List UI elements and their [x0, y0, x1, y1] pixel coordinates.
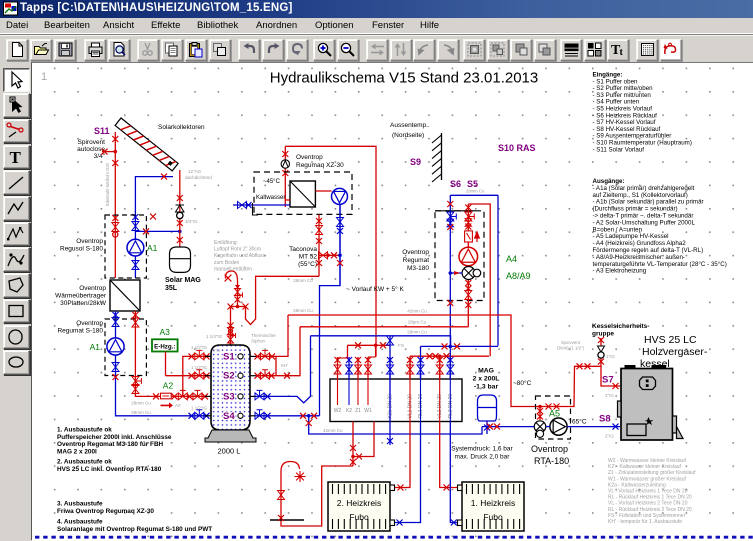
svg-text:Taconova: Taconova	[289, 246, 317, 253]
svg-text:MAG 2 x 200l: MAG 2 x 200l	[57, 448, 97, 455]
svg-text:1. Heizkreis: 1. Heizkreis	[471, 498, 515, 508]
svg-text:S7: S7	[602, 375, 614, 386]
svg-text:S6: S6	[450, 179, 461, 189]
svg-text:S9: S9	[410, 157, 421, 167]
svg-text:28mm Cu: 28mm Cu	[131, 401, 151, 406]
svg-text:Holzvergaser-: Holzvergaser-	[642, 346, 708, 358]
svg-text:A5: A5	[549, 409, 560, 419]
svg-text:1 1/2"IG: 1 1/2"IG	[191, 365, 208, 370]
svg-text:Oventrop: Oventrop	[402, 249, 429, 256]
svg-text:Z1: Z1	[355, 408, 361, 414]
svg-text:Systemdruck: 1,6 bar: Systemdruck: 1,6 bar	[451, 446, 513, 453]
svg-text:manuell entlüften: manuell entlüften	[214, 266, 252, 272]
svg-text:(Nordseite): (Nordseite)	[392, 132, 424, 139]
svg-text:2000 L: 2000 L	[218, 447, 241, 456]
svg-text:Oventrop: Oventrop	[79, 285, 106, 292]
svg-text:Kesselsicherheits-: Kesselsicherheits-	[592, 323, 649, 330]
svg-text:HVS 25 LC inkl. Oventrop RT: HVS 25 LC inkl. Oventrop RTA-180	[57, 466, 162, 473]
svg-text:30Platten/28kW: 30Platten/28kW	[60, 300, 107, 307]
svg-text:FS - Füllstation und Systemtre: FS - Füllstation und Systemtrenner	[608, 513, 686, 519]
svg-text:FS: FS	[398, 343, 404, 349]
svg-text:A1: A1	[90, 342, 101, 352]
svg-text:2. Heizkreis: 2. Heizkreis	[337, 498, 381, 508]
svg-text:Edelstahl-Wellrohr D20: Edelstahl-Wellrohr D20	[105, 162, 110, 206]
svg-text:KH': KH'	[281, 363, 288, 368]
svg-text:RL - Rücklauf Heizkreis 1 Te: RL - Rücklauf Heizkreis 1 Tece DN 20	[608, 495, 692, 501]
svg-text:VL - Vorlauf Heizkreis 1 Tece: VL - Vorlauf Heizkreis 1 Tece DN 20	[608, 489, 688, 495]
svg-text:M3-180: M3-180	[407, 265, 429, 272]
svg-text:MAG: MAG	[478, 368, 494, 375]
svg-text:4. Ausbaustufe: 4. Ausbaustufe	[57, 519, 103, 526]
svg-text:35L: 35L	[165, 285, 178, 292]
svg-text:Kaltwasser: Kaltwasser	[256, 195, 285, 201]
svg-text:3/4"IG: 3/4"IG	[185, 219, 198, 224]
svg-text:A1: A1	[147, 243, 158, 253]
svg-text:K2: K2	[346, 408, 352, 414]
svg-text:Siphon: Siphon	[251, 339, 266, 344]
svg-text:K2' - Kaltwasser kleiner Kreis: K2' - Kaltwasser kleiner Kreislauf	[608, 464, 682, 470]
svg-text:Luftopf Rohr 2" 30cm: Luftopf Rohr 2" 30cm	[214, 247, 261, 253]
svg-text:S1: S1	[223, 351, 235, 362]
svg-text:A4: A4	[506, 254, 517, 264]
svg-text:Thermischer: Thermischer	[251, 333, 277, 338]
svg-text:Entlüftung:: Entlüftung:	[214, 240, 238, 246]
svg-text:~ Vorlauf KW + 5° K: ~ Vorlauf KW + 5° K	[346, 285, 405, 293]
svg-text:W1: W1	[364, 408, 372, 414]
svg-text:(55°C): (55°C)	[298, 260, 317, 268]
svg-text:RTA-180: RTA-180	[534, 456, 569, 466]
svg-text:Solarkollektoren: Solarkollektoren	[158, 124, 205, 131]
svg-text:Fubo: Fubo	[349, 512, 369, 522]
svg-text:Oventrop Regumat M3-180 für F: Oventrop Regumat M3-180 für FBH	[57, 441, 164, 448]
svg-text:K2a - Kaltwasserzuleitung: K2a - Kaltwasserzuleitung	[608, 482, 666, 488]
svg-text:A3: A3	[160, 327, 171, 337]
svg-text:S11: S11	[94, 126, 110, 136]
svg-text:Oventrop: Oventrop	[76, 320, 103, 327]
svg-text:S4: S4	[223, 411, 235, 422]
svg-text:Solar MAG: Solar MAG	[165, 277, 201, 284]
svg-text:Regusol S-180: Regusol S-180	[60, 246, 103, 253]
svg-text:Z1 - Zirkulationsleitung groß: Z1 - Zirkulationsleitung großer Kreislau…	[608, 470, 696, 476]
svg-text:2 x 200L: 2 x 200L	[473, 376, 500, 383]
svg-text:~80°C: ~80°C	[513, 379, 532, 387]
svg-text:Regumat S-180: Regumat S-180	[57, 328, 103, 335]
svg-text:A8/A9: A8/A9	[506, 271, 531, 281]
svg-text:Solaranlage mit Oventrop Regu: Solaranlage mit Oventrop Regumat S-180 u…	[57, 526, 212, 533]
svg-text:autoclose: autoclose	[77, 146, 105, 153]
svg-text:Oventrop: Oventrop	[531, 444, 568, 454]
svg-text:DN40 (1 1/2"): DN40 (1 1/2")	[557, 346, 585, 351]
svg-text:1 1/4"IG: 1 1/4"IG	[206, 334, 223, 339]
svg-text:2. Ausbaustufe ok: 2. Ausbaustufe ok	[57, 459, 112, 466]
svg-text:Oventrop: Oventrop	[296, 154, 323, 161]
svg-text:MT 52: MT 52	[299, 254, 318, 261]
svg-text:~45°C: ~45°C	[263, 179, 281, 185]
svg-text:2"IG: 2"IG	[213, 349, 221, 353]
svg-text:28mm Cu: 28mm Cu	[131, 410, 151, 415]
svg-text:S8: S8	[599, 414, 611, 425]
svg-text:28pm Cu: 28pm Cu	[408, 320, 427, 325]
svg-text:HVS 25 LC: HVS 25 LC	[644, 334, 697, 346]
svg-text:Fubo: Fubo	[483, 512, 503, 522]
svg-text:1. Ausbaustufe ok: 1. Ausbaustufe ok	[57, 427, 112, 434]
svg-text:E-Hzg.:: E-Hzg.:	[154, 343, 175, 350]
svg-text:1 1/2"IG: 1 1/2"IG	[191, 345, 208, 350]
svg-text:28mm Cu: 28mm Cu	[407, 330, 427, 335]
svg-text:1 1/2"IG: 1 1/2"IG	[191, 406, 208, 411]
svg-text:W1 - Warmwasser großer Kreisla: W1 - Warmwasser großer Kreislauf	[608, 476, 686, 482]
svg-text:max. Druck 2,0 bar: max. Druck 2,0 bar	[455, 454, 511, 461]
svg-text:2"IG: 2"IG	[605, 434, 614, 439]
svg-text:28mm Cu: 28mm Cu	[293, 278, 313, 283]
svg-text:A2: A2	[163, 381, 174, 391]
svg-text:28mm Cu: 28mm Cu	[466, 189, 485, 194]
svg-text:- A3 Elektroheizung: - A3 Elektroheizung	[593, 268, 647, 275]
svg-text:S2: S2	[223, 371, 235, 382]
svg-text:S5: S5	[467, 179, 478, 189]
svg-text:S3: S3	[223, 391, 235, 402]
svg-text:- S11 Solar Vorlauf: - S11 Solar Vorlauf	[593, 146, 645, 153]
svg-text:28mm Cu: 28mm Cu	[293, 308, 313, 313]
svg-text:Hydraulikschema V15 Stand 23.0: Hydraulikschema V15 Stand 23.01.2013	[270, 70, 539, 87]
svg-text:gruppe: gruppe	[592, 331, 614, 338]
svg-text:VL - Vorlauf Heizkreis 2 Tece: VL - Vorlauf Heizkreis 2 Tece DN 20	[608, 501, 688, 507]
svg-text:Spirovent: Spirovent	[561, 340, 581, 345]
svg-text:Regumat: Regumat	[403, 257, 430, 264]
svg-text:2"IG: 2"IG	[605, 393, 614, 398]
svg-text:dachdichtend: dachdichtend	[185, 175, 212, 180]
svg-text:1: 1	[41, 71, 47, 83]
svg-text:3. Ausbaustufe: 3. Ausbaustufe	[57, 501, 103, 508]
svg-text:42mm Cu: 42mm Cu	[323, 428, 343, 433]
svg-text:Friwa Oventrop Regumaq XZ-30: Friwa Oventrop Regumaq XZ-30	[57, 508, 154, 515]
svg-text:1"IG: 1"IG	[606, 354, 615, 359]
svg-text:3/4": 3/4"	[94, 153, 106, 160]
svg-text:42mm Cu: 42mm Cu	[407, 309, 427, 314]
svg-text:RL - Rücklauf Heizkreis 2 Te: RL - Rücklauf Heizkreis 2 Tece DN 20	[608, 507, 692, 513]
svg-text:zum Boden: zum Boden	[214, 260, 240, 266]
svg-text:A0: A0	[175, 403, 181, 408]
svg-text:Wärmeübertrager: Wärmeübertrager	[55, 293, 107, 300]
svg-text:Spirovent: Spirovent	[78, 139, 106, 146]
svg-text:65°C: 65°C	[572, 418, 587, 426]
svg-text:Aussentemp..: Aussentemp..	[390, 122, 430, 129]
svg-text:-1,3 bar: -1,3 bar	[474, 384, 499, 391]
svg-text:Kugelhahn und Abfluss: Kugelhahn und Abfluss	[214, 253, 266, 259]
svg-text:Regumaq XZ-30: Regumaq XZ-30	[296, 162, 344, 169]
svg-text:Pufferspeicher 2000l inkl. An: Pufferspeicher 2000l inkl. Anschlüsse	[57, 434, 172, 441]
svg-text:Oventrop: Oventrop	[76, 238, 103, 245]
svg-text:12"AG: 12"AG	[188, 169, 202, 174]
svg-text:W2: W2	[334, 408, 342, 414]
svg-text:S10 RAS: S10 RAS	[498, 143, 536, 153]
svg-text:KH' - temporär für 1. Ausbaust: KH' - temporär für 1. Ausbaustufe	[608, 519, 682, 525]
svg-text:W2 - Warmwasser kleiner Kreisl: W2 - Warmwasser kleiner Kreislauf	[608, 458, 686, 464]
